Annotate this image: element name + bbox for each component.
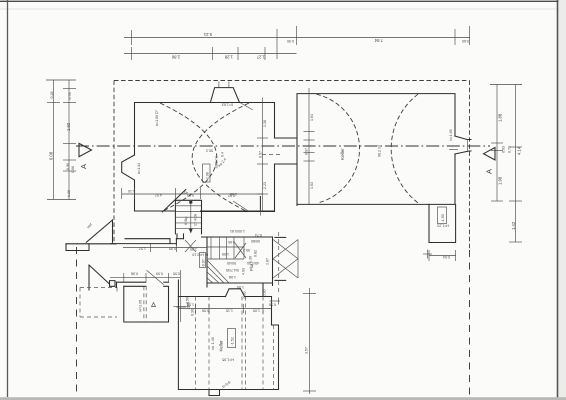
svg-text:45°: 45° xyxy=(182,191,188,195)
svg-text:0.78: 0.78 xyxy=(68,93,72,100)
svg-text:3.57: 3.57 xyxy=(305,347,309,354)
page right edge line xyxy=(557,0,559,400)
upper-left room walls xyxy=(135,103,275,212)
left room interior vertical dim line xyxy=(257,98,268,212)
section marker right triangle xyxy=(484,148,496,161)
lower cellar bottom notch xyxy=(209,390,220,396)
dashed property line right lower xyxy=(469,250,471,397)
svg-text:50/45: 50/45 xyxy=(227,261,236,265)
hof cross note xyxy=(185,240,196,252)
svg-text:1.98: 1.98 xyxy=(498,176,503,185)
svg-text:1.00/0.81: 1.00/0.81 xyxy=(230,229,245,233)
lower cellar right small dim xyxy=(270,298,281,305)
hof upper wall band xyxy=(66,244,116,251)
svg-text:H=2.10: H=2.10 xyxy=(192,253,204,257)
hall winder stairs xyxy=(207,260,229,283)
svg-text:5/4.7/35: 5/4.7/35 xyxy=(226,268,239,272)
top dimension chain upper line xyxy=(124,26,470,59)
hall right wall xyxy=(272,237,274,286)
svg-text:5.21: 5.21 xyxy=(203,32,212,37)
left room interior horizontal dim line xyxy=(122,188,262,199)
svg-text:6 Stg: 6 Stg xyxy=(184,217,188,225)
ramp diagonal above stairs xyxy=(162,190,185,212)
svg-text:H=2.05: H=2.05 xyxy=(139,300,143,312)
hof lower wall stub xyxy=(89,281,115,290)
scan bottom shadow xyxy=(0,397,566,400)
left vertical dimension chain inner xyxy=(63,80,76,200)
svg-text:0.06: 0.06 xyxy=(71,166,75,173)
svg-text:Keller: Keller xyxy=(219,340,224,352)
svg-text:-2.08: -2.08 xyxy=(206,172,210,180)
lightwell cap walls xyxy=(275,237,286,280)
dashed site outline top xyxy=(114,80,470,82)
right room south extension walls xyxy=(429,204,456,242)
lower cellar top dim line xyxy=(178,304,271,313)
svg-text:1.64: 1.64 xyxy=(310,114,314,121)
dashed site outline right xyxy=(469,81,471,251)
svg-text:-0.97: -0.97 xyxy=(202,259,206,267)
svg-text:0.4: 0.4 xyxy=(221,152,225,157)
svg-text:0.97: 0.97 xyxy=(259,151,263,158)
room A door swing xyxy=(147,270,164,284)
corridor between rooms lower wall xyxy=(275,163,298,165)
hall left wall xyxy=(206,237,208,283)
svg-text:H=1.23: H=1.23 xyxy=(437,224,449,228)
lower cellar dashed line near right wall xyxy=(273,325,275,390)
svg-text:b=1.65: b=1.65 xyxy=(449,129,453,140)
svg-text:ca. 1.40: ca. 1.40 xyxy=(211,337,215,350)
vault arc left room 1 xyxy=(160,103,217,212)
larder partition grid xyxy=(207,237,244,259)
vault arc right room west xyxy=(316,94,359,203)
cellar room A walls xyxy=(124,286,169,322)
right vertical dimension chain outer xyxy=(509,85,522,243)
page top edge line xyxy=(0,0,566,2)
left vertical dimension chain outer xyxy=(46,80,76,200)
svg-text:1.42: 1.42 xyxy=(511,221,516,230)
svg-text:1.53: 1.53 xyxy=(310,182,314,189)
upper-right room walls xyxy=(297,94,455,206)
svg-text:50/80: 50/80 xyxy=(251,239,260,243)
svg-text:0.56: 0.56 xyxy=(202,309,209,313)
svg-text:1.05: 1.05 xyxy=(253,309,260,313)
lower cellar level box xyxy=(228,329,236,348)
svg-text:0.97: 0.97 xyxy=(305,148,309,155)
svg-text:0.55: 0.55 xyxy=(173,272,180,276)
faint scan streak xyxy=(0,8,566,10)
svg-text:1.57: 1.57 xyxy=(139,247,146,251)
svg-text:A: A xyxy=(79,164,88,169)
svg-text:0.97: 0.97 xyxy=(228,194,235,198)
lower cellar outline xyxy=(178,280,278,390)
hall-cellar junction walls xyxy=(207,283,263,297)
chimney trapezoid top xyxy=(210,88,239,103)
svg-text:0.94: 0.94 xyxy=(443,255,450,259)
main staircase walls xyxy=(175,200,201,234)
svg-text:0.74: 0.74 xyxy=(255,233,262,237)
scan margin right strip xyxy=(559,0,566,400)
svg-text:1.28: 1.28 xyxy=(224,55,233,60)
hall level box xyxy=(200,253,206,268)
svg-text:45/1.20: 45/1.20 xyxy=(247,261,259,265)
svg-text:-1.52: -1.52 xyxy=(231,337,235,345)
left room centre level box xyxy=(203,164,211,182)
extension corner cross tick xyxy=(423,250,432,259)
hof ramp triangle 1 xyxy=(86,220,112,242)
svg-text:b=1.63: b=1.63 xyxy=(222,103,233,107)
chimney flue ticks xyxy=(218,82,220,88)
svg-text:4.14: 4.14 xyxy=(517,146,522,155)
svg-text:0.30: 0.30 xyxy=(243,292,247,299)
corridor between rooms upper wall xyxy=(275,137,298,139)
chimney leader line xyxy=(241,103,253,110)
svg-text:50.2: 50.2 xyxy=(206,149,213,153)
hof dim line xyxy=(123,243,207,252)
svg-text:4.57: 4.57 xyxy=(155,193,162,197)
dashed property line left lower xyxy=(76,247,78,397)
svg-text:2.86: 2.86 xyxy=(171,55,180,60)
vestibule node tick xyxy=(259,208,261,216)
window splay jamb xyxy=(467,140,469,152)
svg-text:1.92: 1.92 xyxy=(66,122,71,131)
room A dim line above xyxy=(110,273,180,282)
svg-text:0.30: 0.30 xyxy=(191,309,195,316)
room A symbol xyxy=(152,303,156,307)
svg-text:A: A xyxy=(485,169,494,174)
svg-text:-1.50: -1.50 xyxy=(441,214,445,222)
right vertical dimension chain inner xyxy=(490,85,522,202)
dashed annex outline xyxy=(80,288,117,318)
svg-text:6.08: 6.08 xyxy=(49,151,54,160)
svg-text:b=1.34: b=1.34 xyxy=(137,163,141,174)
vestibule door swing xyxy=(233,201,248,211)
hof ramp triangle 2 xyxy=(89,265,110,284)
chimney between hall and lower cellar xyxy=(226,289,245,297)
svg-text:0.82: 0.82 xyxy=(254,250,258,257)
svg-text:0.60: 0.60 xyxy=(228,240,235,244)
svg-text:0.99: 0.99 xyxy=(156,272,163,276)
vault arc right room east xyxy=(391,94,418,203)
dashed site outline left upper xyxy=(113,81,115,244)
hall top wall xyxy=(202,236,273,238)
svg-text:7.94: 7.94 xyxy=(374,38,383,43)
room A wall band above xyxy=(117,282,169,287)
lightwell cross upper X xyxy=(273,240,298,259)
lower cellar dashed ceiling lines xyxy=(196,297,264,390)
svg-text:1.15: 1.15 xyxy=(226,309,233,313)
main staircase steps xyxy=(175,206,201,229)
extension level box xyxy=(438,207,447,224)
svg-text:1.88: 1.88 xyxy=(498,113,503,122)
top dimension chain lower line xyxy=(124,47,297,60)
svg-text:b=1.00 D°: b=1.00 D° xyxy=(155,109,159,126)
svg-text:2.55: 2.55 xyxy=(187,302,191,309)
svg-text:0.98: 0.98 xyxy=(131,272,138,276)
upper-left room window bay xyxy=(122,155,135,180)
svg-text:1.10: 1.10 xyxy=(128,189,135,193)
svg-text:1.38: 1.38 xyxy=(263,120,267,127)
lightwell right edge stubs xyxy=(297,240,299,279)
lightwell dashed axis xyxy=(278,232,280,292)
right room interior vertical dim line xyxy=(304,88,315,204)
page left edge line xyxy=(7,0,9,397)
vestibule partition xyxy=(259,197,261,212)
splay tick xyxy=(449,149,458,151)
hof south wall mid xyxy=(111,234,184,245)
door cross in hall xyxy=(235,243,246,258)
staircase walk line arrow xyxy=(189,201,193,234)
svg-text:0.90: 0.90 xyxy=(287,39,294,43)
svg-text:2.23: 2.23 xyxy=(263,182,267,189)
svg-text:Keller: Keller xyxy=(340,148,345,160)
svg-text:0.63: 0.63 xyxy=(502,146,506,153)
svg-text:1.58: 1.58 xyxy=(229,275,236,279)
svg-text:0.28: 0.28 xyxy=(50,92,54,99)
svg-text:1.27: 1.27 xyxy=(256,55,265,60)
svg-text:1.87: 1.87 xyxy=(266,258,270,265)
svg-text:H=1.95: H=1.95 xyxy=(222,358,234,362)
room A dashed partition xyxy=(143,286,145,322)
hall bottom wall xyxy=(207,282,273,284)
extension dim line xyxy=(429,250,456,261)
svg-text:1.05: 1.05 xyxy=(222,252,229,256)
lightwell cross lower X xyxy=(273,259,298,278)
svg-text:0.60: 0.60 xyxy=(462,39,469,43)
svg-text:0.90: 0.90 xyxy=(66,163,70,170)
svg-text:4.93: 4.93 xyxy=(242,268,246,275)
room A right dim line xyxy=(173,270,190,322)
svg-text:96.2 m²: 96.2 m² xyxy=(378,144,382,157)
svg-text:0.58: 0.58 xyxy=(269,303,276,307)
svg-text:0.99: 0.99 xyxy=(169,247,176,251)
corridor leader dashes xyxy=(262,154,281,156)
right bottom dim line 3.57 xyxy=(303,288,316,394)
section line A-A xyxy=(76,145,490,147)
section marker left triangle xyxy=(79,143,92,156)
svg-text:17.4/28: 17.4/28 xyxy=(194,214,198,226)
vestibule south wall xyxy=(201,211,275,213)
svg-text:90.2: 90.2 xyxy=(243,248,250,252)
vault arc left room 2 xyxy=(192,103,249,212)
svg-text:H: H xyxy=(206,253,209,257)
svg-text:1.26: 1.26 xyxy=(67,190,71,197)
right wall window splay xyxy=(455,136,471,154)
